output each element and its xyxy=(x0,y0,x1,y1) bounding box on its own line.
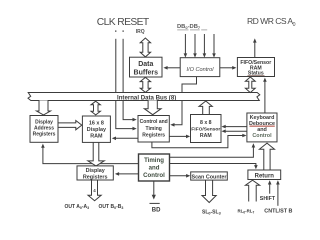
svg-text:RAM: RAM xyxy=(200,133,212,139)
wire Control/Timing Registers to FIFO/Sensor RAM xyxy=(169,135,190,139)
Status underline xyxy=(248,74,265,76)
svg-text:SHIFT: SHIFT xyxy=(260,196,276,202)
box Display Address Registers xyxy=(30,116,58,143)
svg-text:Registers: Registers xyxy=(83,175,108,181)
box Keyboard Debounce and Control xyxy=(247,113,277,142)
wire CLK tick xyxy=(115,30,117,32)
text Display Address Registers xyxy=(33,120,56,138)
wire Timing/Control to Scan Counter xyxy=(170,174,191,178)
wire Keyboard Debounce to FIFO/Sensor RAM upper xyxy=(222,125,247,129)
wire FIFO status up arrow to CPU xyxy=(253,38,257,57)
svg-text:I/O Control: I/O Control xyxy=(186,67,214,73)
bus arrow to Control/Timing Registers xyxy=(144,100,161,114)
text Data Buffers xyxy=(134,61,159,77)
svg-text:Display: Display xyxy=(86,168,105,174)
wire DB0 arrow into I/O Control xyxy=(184,34,188,58)
Display RAM down arrow to Display Registers xyxy=(88,142,104,166)
text FIFO/Sensor RAM Status xyxy=(240,60,271,76)
BD overline xyxy=(150,202,160,204)
wire DB2 arrow into I/O Control xyxy=(203,34,207,58)
svg-text:Scan Counter: Scan Counter xyxy=(191,174,227,180)
wire DB1 arrow into I/O Control xyxy=(193,34,197,58)
svg-text:SL0-SL3: SL0-SL3 xyxy=(202,210,221,216)
svg-text:and: and xyxy=(149,165,160,172)
svg-text:Registers: Registers xyxy=(142,133,165,139)
svg-text:BD: BD xyxy=(152,208,161,214)
wire Control/Timing Registers to Display RAM xyxy=(112,137,138,141)
Return up arrow from Keyboard Debounce xyxy=(259,143,274,170)
Display Address Registers to Display RAM arrow xyxy=(58,121,82,130)
wire Timing/Control to Return top xyxy=(170,164,258,170)
svg-text:Timing: Timing xyxy=(144,157,164,164)
svg-text:Display: Display xyxy=(87,127,106,133)
box FIFO/Sensor RAM Status xyxy=(237,58,274,77)
svg-text:IRQ: IRQ xyxy=(136,29,145,35)
svg-text:Data: Data xyxy=(138,61,153,68)
svg-text:OUT B0-B3: OUT B0-B3 xyxy=(99,204,124,210)
svg-text:Registers: Registers xyxy=(33,132,56,138)
wire RESET to Control/Timing Registers xyxy=(123,101,137,122)
wire I/O Control to FIFO/Sensor RAM Status xyxy=(220,66,236,70)
wire I/O Control bottom to internal bus xyxy=(182,77,197,93)
svg-text:16 x 8: 16 x 8 xyxy=(89,121,104,127)
FIFO/Sensor RAM up arrow to bus xyxy=(199,101,212,114)
text Timing and Control xyxy=(143,157,165,179)
box Timing and Control xyxy=(139,154,170,181)
text 8x8 FIFO/Sensor RAM xyxy=(191,120,220,139)
svg-text:8 x 8: 8 x 8 xyxy=(200,120,212,126)
box Control and Timing Registers xyxy=(138,116,169,143)
wire RESET tick xyxy=(122,30,124,32)
text Keyboard Debounce and Control xyxy=(249,115,275,139)
wire DB3 arrow into I/O Control xyxy=(212,34,216,58)
svg-text:Internal Data Bus (8): Internal Data Bus (8) xyxy=(117,94,176,101)
Scan Counter down arrow to SL lines xyxy=(202,180,216,202)
box Display Registers xyxy=(77,166,113,180)
svg-text:Timing: Timing xyxy=(146,126,162,132)
wire Timing/Control BD output xyxy=(152,181,156,200)
DB label underlines xyxy=(177,29,207,31)
box Data Buffers xyxy=(130,57,163,77)
svg-text:FIFO/Sensor: FIFO/Sensor xyxy=(191,127,220,133)
svg-text:OUT A0-A3: OUT A0-A3 xyxy=(65,204,90,210)
wire CNTL/STB input to Return xyxy=(276,180,280,206)
svg-text:Status: Status xyxy=(248,70,264,76)
wire CLK line xyxy=(115,39,117,93)
wire SHIFT input to Return xyxy=(268,180,272,193)
Display Registers down arrow to OUT lines xyxy=(88,180,101,200)
svg-text:DB0-DB7: DB0-DB7 xyxy=(177,24,201,30)
wire bus to Control/Timing Registers right side xyxy=(170,101,182,127)
svg-text:Buffers: Buffers xyxy=(134,70,159,77)
wire I/O Control to Data Buffers xyxy=(163,66,180,70)
wire Keyboard Debounce top to FIFO status xyxy=(263,78,267,113)
wire CLK to Control/Timing Registers xyxy=(116,101,137,131)
Data Buffers double arrow to bus xyxy=(140,77,150,92)
box 8x8 FIFO/Sensor RAM xyxy=(191,115,222,143)
svg-text:CNTL/ST B: CNTL/ST B xyxy=(264,209,292,215)
wire Timing/Control to Display Registers xyxy=(115,172,138,176)
bus double arrow to FIFO status xyxy=(245,77,255,93)
text Display Registers xyxy=(83,168,108,181)
bus arrow to Display Address Registers xyxy=(37,100,51,115)
wire Keyboard Debounce to FIFO/Sensor RAM lower xyxy=(222,129,247,133)
RL lines up arrow into Return xyxy=(245,180,259,201)
box I/O Control xyxy=(180,58,220,77)
IRQ double arrow above Data Buffers xyxy=(140,38,150,57)
Debounce red underline xyxy=(250,125,275,127)
box 16x8 Display RAM xyxy=(82,116,110,142)
wire Timing/Control to Display Address Registers xyxy=(41,144,138,164)
svg-text:Control: Control xyxy=(252,133,272,139)
box Return xyxy=(248,170,281,180)
wire Timing/Control to Keyboard Debounce bottom xyxy=(170,143,256,157)
text 16x8 Display RAM xyxy=(87,121,106,140)
svg-text:RAM: RAM xyxy=(90,134,103,140)
svg-text:Return: Return xyxy=(255,173,275,179)
internal data bus bar xyxy=(28,93,260,101)
wire RESET line xyxy=(122,39,124,93)
bus double arrow to Display RAM xyxy=(91,101,100,115)
svg-text:CLK RESET: CLK RESET xyxy=(97,17,150,28)
wire Control/Timing Registers bottom to Keyboard Debounce xyxy=(152,134,247,148)
svg-text:Control: Control xyxy=(143,172,165,179)
text Control and Timing Registers xyxy=(140,119,168,139)
svg-text:Control and: Control and xyxy=(140,119,168,125)
box Scan Counter xyxy=(191,172,228,180)
